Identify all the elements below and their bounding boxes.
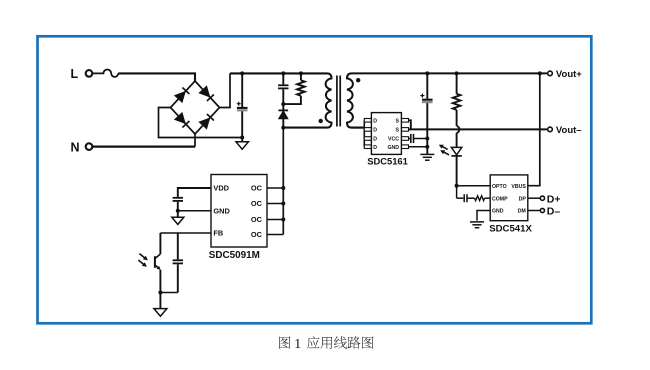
caption 图1 应用线路图 <box>279 337 290 349</box>
wire GND pin SDC541X <box>477 211 490 221</box>
svg-text:D–: D– <box>547 206 561 218</box>
SDC5161 right pin stubs <box>401 119 408 123</box>
svg-text:GND: GND <box>213 206 230 215</box>
ground (FB) <box>159 293 161 309</box>
node junction bulk cap minus <box>240 136 244 140</box>
wire DM <box>528 210 541 212</box>
wire DP <box>528 197 541 199</box>
ground (VDD cap) <box>177 211 179 217</box>
wire N input <box>92 146 195 148</box>
wire L to bridge top <box>118 73 195 81</box>
svg-text:SDC5091M: SDC5091M <box>209 250 260 261</box>
op-amp U1 (SDC5091M) box <box>211 175 267 248</box>
capacitor C1 (bulk electrolytic) <box>241 73 243 107</box>
wire R2 to LED <box>456 133 458 148</box>
capacitor C2 (snubber) <box>282 73 284 84</box>
svg-text:COMP: COMP <box>492 196 508 202</box>
wire emitter to FB cap <box>160 292 177 294</box>
transformer T1 primary winding <box>326 73 332 127</box>
svg-text:S: S <box>396 118 400 124</box>
svg-text:OC: OC <box>251 215 263 224</box>
wire primary bottom <box>283 127 327 129</box>
wire VBUS to Vout+ <box>528 73 540 185</box>
wire OC bus <box>282 128 284 235</box>
node junction primary bottom <box>281 126 285 130</box>
svg-text:1: 1 <box>294 336 301 351</box>
svg-text:D: D <box>373 145 377 151</box>
node junction Vout+ / C4 <box>425 71 429 75</box>
wire bridge+ to top rail <box>220 73 231 107</box>
wire FB <box>160 232 211 234</box>
svg-text:OC: OC <box>251 199 263 208</box>
wire D-pin bus <box>363 120 365 146</box>
ground (bulk) <box>241 138 243 142</box>
diode D1 (clamp) <box>282 104 284 110</box>
transformer T1 core <box>336 76 338 127</box>
fuse F1 <box>92 70 118 77</box>
wire Vout+ rail <box>352 72 547 74</box>
wire S1 elbow <box>409 120 411 129</box>
svg-text:FB: FB <box>213 229 223 238</box>
svg-text:N: N <box>71 140 80 154</box>
wire secondary bottom <box>352 126 365 128</box>
svg-text:VCC: VCC <box>388 137 399 143</box>
wire top rail <box>230 72 327 74</box>
wire GND pin to ground line <box>409 146 428 148</box>
svg-text:D: D <box>373 118 377 124</box>
bridge diode (top-right) <box>199 86 209 97</box>
terminal D- <box>540 208 544 212</box>
wire bridge- elbow <box>159 108 243 138</box>
svg-text:Vout+: Vout+ <box>556 69 582 80</box>
capacitor C5 (VDD) <box>178 188 211 197</box>
op-amp U3 (SDC541X) box <box>490 175 528 221</box>
transformer secondary polarity dot <box>356 78 360 82</box>
node junction emitter <box>158 291 162 295</box>
terminal Vout+ <box>548 71 553 76</box>
transistor Q1 (optocoupler phototransistor) <box>159 233 161 254</box>
node junction snubber res <box>299 71 303 75</box>
terminal Vout- <box>548 127 553 132</box>
node junction snubber <box>281 102 285 106</box>
node junction bulk cap top <box>240 71 244 75</box>
svg-text:D: D <box>373 137 377 143</box>
bridge rectifier frame <box>171 81 220 134</box>
LED D2 (optocoupler emitter) <box>451 147 461 154</box>
op-amp U2 (SDC5161) box <box>371 113 401 155</box>
node junction VDD gnd <box>176 209 180 213</box>
svg-text:DM: DM <box>518 209 526 215</box>
wire Vout- rail <box>409 128 547 130</box>
svg-text:D: D <box>373 128 377 134</box>
wire hop over Vout- rail <box>457 126 460 133</box>
ground (SDC541X) <box>470 221 484 223</box>
node junction OPTO <box>455 184 459 188</box>
capacitor C7 (FB filter) <box>177 233 179 259</box>
svg-text:SDC5161: SDC5161 <box>367 156 408 167</box>
node junction VBUS top <box>538 71 542 75</box>
bridge diode (left-top) <box>175 92 185 103</box>
transformer primary polarity dot <box>319 119 323 123</box>
transformer T1 secondary winding <box>347 73 353 127</box>
bridge diode (bottom-right) <box>199 118 209 129</box>
svg-text:L: L <box>71 67 79 81</box>
terminal N <box>86 143 93 150</box>
svg-text:Vout–: Vout– <box>556 125 582 136</box>
node junction Vout+ / R2 <box>455 71 459 75</box>
svg-text:OPTO: OPTO <box>492 184 507 190</box>
wires OC pins to bus <box>267 187 283 189</box>
capacitor C6 + resistor R3 (COMP network) <box>456 186 458 199</box>
wire OPTO pin <box>457 185 491 187</box>
wire bridge bottom to N <box>194 134 196 147</box>
svg-text:S: S <box>396 128 400 134</box>
node junction VCC tee <box>425 137 429 141</box>
node junction snubber cap <box>281 71 285 75</box>
bridge diode (left-bottom) <box>175 113 185 124</box>
svg-text:D+: D+ <box>547 193 561 205</box>
svg-text:OC: OC <box>251 230 263 239</box>
svg-text:DP: DP <box>519 196 527 202</box>
svg-text:GND: GND <box>492 209 504 215</box>
capacitor C4 (VCC storage electrolytic) <box>426 73 428 98</box>
node junction GND tee <box>425 145 429 149</box>
terminal D+ <box>540 196 544 200</box>
ground (SDC5161) <box>420 153 434 155</box>
resistor R2 (LED bias) <box>456 73 458 93</box>
svg-text:OC: OC <box>251 184 263 193</box>
svg-text:VDD: VDD <box>213 184 229 193</box>
resistor R1 (snubber) <box>300 73 302 80</box>
capacitor C3 (VCC decoupling) <box>409 138 411 140</box>
svg-text:VBUS: VBUS <box>511 184 526 190</box>
terminal L <box>86 70 93 77</box>
wire GND pin SDC5091M <box>178 210 211 212</box>
svg-text:GND: GND <box>387 145 399 151</box>
svg-text:SDC541X: SDC541X <box>489 223 532 234</box>
